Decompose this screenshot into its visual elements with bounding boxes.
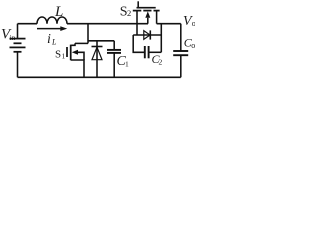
wire S2 source node down <box>136 24 138 35</box>
transistor S2 gate lead <box>137 1 139 7</box>
diode D1 lead <box>96 41 98 78</box>
wire bottom rail <box>18 76 181 78</box>
diode D2 lead <box>133 34 161 36</box>
svg-text:in: in <box>10 33 16 42</box>
capacitor C1 top lead <box>113 41 115 50</box>
transistor S2 body arrow <box>145 11 150 17</box>
battery bottom lead <box>17 52 19 77</box>
capacitor C1 plates <box>107 49 121 51</box>
transistor S1 channel bar <box>70 45 72 61</box>
node A vertical from top rail <box>87 24 89 44</box>
battery plate short 2 <box>14 51 22 53</box>
capacitor C2 right lead <box>149 51 161 53</box>
capacitor C2 plates <box>144 46 146 58</box>
wire S1 drain branch <box>75 42 88 44</box>
transistor S2 body stem <box>147 18 149 24</box>
battery plate short 1 <box>14 42 22 44</box>
transistor S2 gate bar <box>137 7 156 9</box>
svg-text:2: 2 <box>159 58 163 67</box>
transistor S2 source stem <box>136 11 138 24</box>
wire output vertical bottom <box>180 56 182 78</box>
inductor L <box>37 17 67 24</box>
capacitor Co plates <box>173 50 188 52</box>
wire output vertical top <box>180 24 182 51</box>
transistor S2 channel segment 1 <box>133 10 142 12</box>
wire loop right vertical <box>160 24 162 53</box>
capacitor C2 left lead <box>133 35 144 52</box>
svg-text:o: o <box>191 41 195 50</box>
transistor S2 channel segment 2 <box>143 10 151 12</box>
svg-text:1: 1 <box>62 52 66 61</box>
battery plate long 1 <box>10 38 26 40</box>
diode D1 cathode bar <box>92 46 103 48</box>
svg-text:L: L <box>54 4 63 20</box>
transistor S1 gate bar <box>66 47 68 57</box>
svg-text:o: o <box>192 19 195 28</box>
battery plate long 2 <box>10 46 26 48</box>
wire top rail right segment <box>157 23 181 25</box>
transistor S2 channel segment 3 <box>154 10 160 12</box>
node A horizontal rail <box>88 40 114 42</box>
svg-text:2: 2 <box>127 8 131 18</box>
transistor S2 drain stem <box>156 11 158 24</box>
svg-text:L: L <box>51 38 57 47</box>
svg-text:S: S <box>55 49 61 61</box>
wire top rail left segment <box>18 23 149 25</box>
transistor S1 source lead <box>71 60 84 77</box>
svg-text:i: i <box>47 32 51 47</box>
transistor S1 body arrow <box>72 50 78 55</box>
diode D1 triangle <box>92 47 102 60</box>
diode D2 triangle <box>144 31 150 40</box>
current arrow iL <box>37 28 61 30</box>
diode D2 cathode bar <box>149 30 151 39</box>
transistor S1 body lead <box>77 52 85 60</box>
svg-text:1: 1 <box>125 60 129 69</box>
transistor S1 drain lead <box>71 43 75 45</box>
battery Vin top lead <box>17 24 19 38</box>
capacitor C1 bottom lead <box>113 54 115 78</box>
